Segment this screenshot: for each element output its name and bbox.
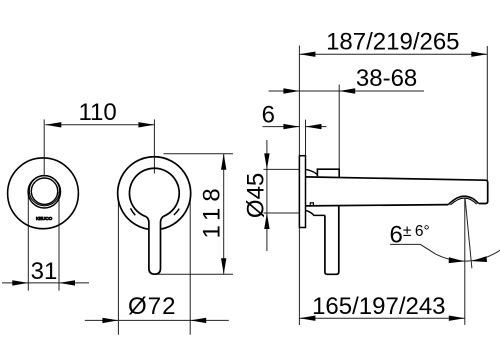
svg-text:38-68: 38-68 bbox=[356, 65, 417, 92]
svg-text:165/197/243: 165/197/243 bbox=[312, 293, 445, 320]
svg-text:187/219/265: 187/219/265 bbox=[326, 29, 459, 56]
svg-text:110: 110 bbox=[78, 99, 116, 126]
svg-text:Ø72: Ø72 bbox=[128, 293, 177, 320]
svg-text:6: 6 bbox=[262, 102, 275, 129]
svg-text:Ø45: Ø45 bbox=[242, 173, 269, 218]
svg-text:KEUCO: KEUCO bbox=[36, 216, 53, 221]
svg-text:118: 118 bbox=[198, 182, 225, 238]
svg-text:31: 31 bbox=[31, 258, 58, 285]
